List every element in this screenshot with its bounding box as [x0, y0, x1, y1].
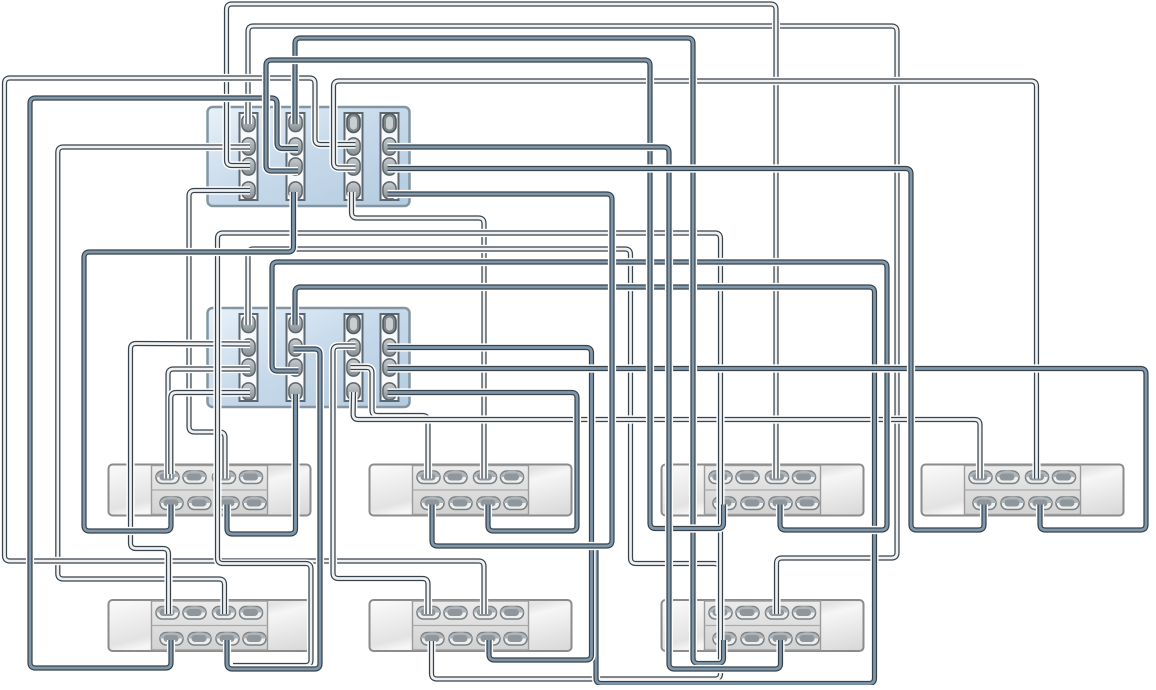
disk shelf 7 bottom port 1: [741, 633, 764, 646]
disk shelf 3 top port 1: [736, 471, 759, 484]
cable C1-slot3-port1 to shelf6 top p3: [5, 78, 485, 614]
disk shelf 7 bottom port 2: [769, 633, 792, 646]
controller C1 slot2 port1: [289, 138, 302, 155]
disk shelf 7 chassis: [662, 600, 864, 651]
disk shelf 3 top port 3: [793, 471, 816, 484]
controller C1 slot1 port1: [242, 138, 255, 155]
disk shelf 2 top port 0: [417, 471, 440, 484]
cable C2-slot4-port3 to shelf2 bottom p3: [388, 393, 578, 532]
cable C2-slot4-port2 to shelf4 bottom p3: [388, 369, 1147, 531]
cable C2-slot1-port1 to shelf5 top p1: [131, 344, 251, 614]
disk shelf 6 bottom port 2: [477, 633, 500, 646]
disk shelf 1 controller panel: [152, 466, 268, 515]
disk shelf 6 bottom port 1: [449, 633, 472, 646]
disk shelf 1 bottom port 2: [216, 497, 239, 510]
disk shelf 4 bottom port 3: [1056, 497, 1079, 510]
disk shelf 2 top port 3: [501, 471, 524, 484]
controller C2 slot3 port1: [347, 339, 360, 356]
disk shelf 4 top port 3: [1053, 471, 1076, 484]
controller C1 HBA slot 1: [240, 113, 258, 200]
cable C1-slot3-port3 to shelf2 top p3: [352, 192, 485, 479]
disk shelf 5 top port 0: [156, 607, 179, 620]
disk shelf 1 bottom port 0: [160, 497, 183, 510]
controller C1 chassis: [208, 107, 410, 206]
disk shelf 7 bottom port 3: [796, 633, 819, 646]
controller C1 slot4 port2: [383, 158, 396, 175]
cable C2-slot2-port2 to shelf3 bottom p3: [272, 262, 887, 530]
cable C2-slot3-port1 to shelf6 top p1: [333, 346, 428, 614]
controller C2 slot3 port3: [347, 383, 360, 400]
disk shelf 6 top port 3: [501, 607, 524, 620]
controller C1 slot1 port0: [242, 114, 255, 131]
controller C1 slot2 port3: [289, 182, 302, 199]
controller C2 slot2 port0: [289, 315, 302, 332]
cable C1-slot1-port0 to shelf7 top p3: [248, 26, 897, 614]
cable C2-slot2-port3 to shelf1 bottom p3: [227, 394, 296, 534]
disk shelf 4 controller panel: [965, 466, 1081, 515]
disk shelf 4 top port 0: [969, 471, 992, 484]
controller C1 slot4 port0 (unused): [383, 114, 396, 133]
controller C1 slot4 port1: [383, 138, 396, 155]
disk shelf 1 bottom port 1: [188, 497, 211, 510]
disk shelf 1 top port 0: [156, 471, 179, 484]
disk shelf 3 bottom port 3: [796, 497, 819, 510]
disk shelf 3 chassis: [662, 465, 864, 516]
disk shelf 6 chassis: [370, 600, 572, 651]
disk shelf 6 top port 1: [444, 607, 467, 620]
controller C2 slot4 port0 (unused): [383, 315, 396, 334]
controller C2 slot4 port3: [383, 383, 396, 400]
cable C2-slot1-port0 to shelf7 top p1: [248, 249, 720, 614]
cable C1-slot2-port3 to shelf1 bottom p1: [84, 192, 294, 531]
controller C1 slot1 port3: [242, 182, 255, 199]
controller C1 HBA slot 2: [287, 113, 305, 200]
cable C1-slot4-port1 to shelf7 bottom p3: [388, 147, 781, 669]
cable C2-slot3-port3 to shelf4 top p1: [353, 392, 980, 479]
controller C2 slot3 port2: [347, 359, 360, 376]
controller C2 slot1 port2: [242, 359, 255, 376]
controller C2 HBA slot 1: [240, 314, 258, 401]
controller C2 slot2 port3: [289, 383, 302, 400]
disk shelf 3 top port 0: [709, 471, 732, 484]
disk shelf 1 chassis: [109, 465, 311, 516]
controller C1 slot2 port2: [289, 158, 302, 175]
controller C1 HBA slot 3: [345, 113, 363, 200]
disk shelf 5 controller panel: [152, 601, 268, 650]
controller C1 HBA slot 4: [381, 113, 399, 200]
cable C1-slot3-port2 to shelf4 top p3: [334, 81, 1037, 479]
disk shelf 6 top port 0: [417, 607, 440, 620]
controller C1 slot1 port2: [242, 158, 255, 175]
controller C2 chassis: [208, 308, 410, 407]
cable C2-slot2-port1 to shelf5 bottom p3: [227, 349, 320, 669]
disk shelf 6 bottom port 3: [504, 633, 527, 646]
disk shelf 3 controller panel: [705, 466, 821, 515]
disk shelf 5 bottom port 2: [216, 633, 239, 646]
disk shelf 5 top port 2: [213, 607, 236, 620]
disk shelf 4 bottom port 2: [1029, 497, 1052, 510]
disk shelf 3 top port 2: [766, 471, 789, 484]
disk shelf 2 chassis: [370, 465, 572, 516]
cable C1-slot2-port2 to shelf3 bottom p1: [266, 60, 724, 529]
disk shelf 2 top port 1: [444, 471, 467, 484]
disk shelf 5 bottom port 3: [243, 633, 266, 646]
disk shelf 7 top port 1: [736, 607, 759, 620]
disk shelf 1 top port 2: [213, 471, 236, 484]
controller C1 slot4 port3: [383, 182, 396, 199]
disk shelf 7 top port 2: [766, 607, 789, 620]
disk shelf 1 bottom port 3: [243, 497, 266, 510]
disk shelf 7 bottom port 0: [713, 633, 736, 646]
controller C2 HBA slot 2: [287, 314, 305, 401]
disk shelf 3 bottom port 2: [769, 497, 792, 510]
disk shelf 5 top port 1: [183, 607, 206, 620]
disk shelf 7 controller panel: [705, 601, 821, 650]
disk shelf 6 bottom port 0: [421, 633, 444, 646]
disk shelf 2 bottom port 1: [449, 497, 472, 510]
disk shelf 4 chassis: [922, 465, 1124, 516]
disk shelf 1 top port 3: [240, 471, 263, 484]
controller C2 slot2 port2: [289, 359, 302, 376]
controller C1 slot3 port1: [347, 138, 360, 155]
disk shelf 2 controller panel: [413, 466, 529, 515]
disk shelf 4 top port 2: [1026, 471, 1049, 484]
cable C2-slot1-port2 to shelf1 top p1: [168, 369, 250, 479]
controller C2 slot3 port0 (unused): [347, 315, 360, 334]
cable C1-slot4-port3 to shelf2 bottom p1: [388, 194, 613, 546]
disk shelf 4 bottom port 1: [1001, 497, 1024, 510]
cable C1-slot1-port1 to shelf5 top p3: [58, 147, 250, 614]
cable C2-slot4-port1 to shelf6 bottom p3: [388, 348, 592, 661]
cable C2-slot3-port2 to shelf2 top p1: [351, 368, 429, 479]
cable C1-slot2-port1 to shelf5 bottom p1: [30, 98, 298, 668]
controller C2 HBA slot 3: [345, 314, 363, 401]
disk shelf 2 bottom port 3: [504, 497, 527, 510]
controller C2 slot2 port1: [289, 339, 302, 356]
cable C2-slot1-port3 to shelf1 top p1b: [171, 393, 250, 475]
controller C2 slot1 port1: [242, 339, 255, 356]
cable C1-slot1-port2 to shelf3 top p3: [227, 4, 777, 479]
controller C2 slot1 port0: [242, 315, 255, 332]
controller C1 slot3 port2: [347, 158, 360, 175]
cable C1-slot4-port2 to shelf4 bottom p1: [388, 169, 985, 531]
cable C2-slot2-port0 to shelf2 bottom p1: [295, 287, 875, 684]
controller C2 slot4 port2: [383, 359, 396, 376]
disk shelf 6 top port 2: [474, 607, 497, 620]
cable C1-slot2-port0 to shelf7 bottom p1: [295, 38, 724, 664]
disk shelf 7 top port 3: [793, 607, 816, 620]
controller C2 slot4 port1: [383, 339, 396, 356]
controller C1 slot3 port3: [347, 182, 360, 199]
cable C1-slot1-port3 to shelf1 top p3: [189, 191, 250, 479]
controller C2 slot1 port3: [242, 383, 255, 400]
disk shelf 4 bottom port 0: [973, 497, 996, 510]
disk shelf 5 chassis: [109, 600, 311, 651]
disk shelf 4 top port 1: [996, 471, 1019, 484]
disk shelf 6 controller panel: [413, 601, 529, 650]
disk shelf 1 top port 1: [183, 471, 206, 484]
disk shelf 2 bottom port 0: [421, 497, 444, 510]
disk shelf 2 bottom port 2: [477, 497, 500, 510]
cable loop shelf3 top p1 / shelf6 bottom p1: [218, 233, 721, 679]
disk shelf 3 bottom port 1: [741, 497, 764, 510]
controller C1 slot3 port0 (unused): [347, 114, 360, 133]
controller C2 HBA slot 4: [381, 314, 399, 401]
disk shelf 3 bottom port 0: [713, 497, 736, 510]
disk shelf 5 bottom port 0: [160, 633, 183, 646]
controller C1 slot2 port0: [289, 114, 302, 131]
disk shelf 2 top port 2: [474, 471, 497, 484]
disk shelf 5 bottom port 1: [188, 633, 211, 646]
disk shelf 7 top port 0: [709, 607, 732, 620]
disk shelf 5 top port 3: [240, 607, 263, 620]
